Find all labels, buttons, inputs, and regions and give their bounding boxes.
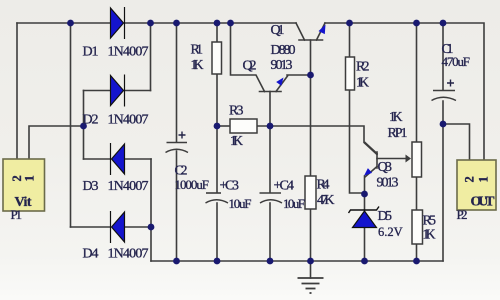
svg-text:1N4007: 1N4007: [108, 45, 149, 60]
svg-text:+C4: +C4: [274, 179, 295, 194]
svg-text:1: 1: [23, 175, 37, 181]
svg-text:D5: D5: [378, 209, 393, 224]
svg-text:RP1: RP1: [388, 126, 408, 141]
svg-text:D3: D3: [83, 179, 99, 194]
svg-text:OUT: OUT: [471, 195, 496, 210]
svg-text:1K: 1K: [356, 75, 369, 90]
svg-text:2: 2: [463, 176, 477, 182]
svg-text:Q3: Q3: [378, 160, 393, 175]
svg-text:P1: P1: [11, 207, 23, 222]
svg-text:1000uF: 1000uF: [175, 177, 210, 192]
svg-text:9013: 9013: [377, 176, 399, 191]
svg-text:R2: R2: [356, 60, 370, 75]
svg-text:9013: 9013: [271, 58, 293, 73]
svg-text:1K: 1K: [230, 133, 243, 148]
svg-text:R4: R4: [317, 178, 330, 193]
svg-text:D4: D4: [83, 247, 99, 262]
svg-text:Q2: Q2: [243, 59, 257, 74]
svg-text:470uF: 470uF: [442, 54, 471, 69]
svg-text:D2: D2: [83, 113, 99, 128]
svg-text:10uF: 10uF: [229, 196, 252, 211]
svg-text:R3: R3: [229, 104, 244, 119]
svg-text:D880: D880: [271, 43, 296, 58]
svg-text:P2: P2: [457, 207, 468, 222]
svg-text:1K: 1K: [389, 109, 403, 124]
svg-text:Q1: Q1: [271, 23, 285, 38]
svg-text:D1: D1: [83, 45, 99, 60]
svg-text:1K: 1K: [423, 227, 436, 242]
svg-text:1K: 1K: [191, 57, 204, 72]
svg-text:10uF: 10uF: [283, 196, 305, 211]
svg-text:+C3: +C3: [220, 179, 240, 194]
svg-text:1: 1: [477, 176, 491, 182]
svg-text:1N4007: 1N4007: [108, 113, 149, 128]
svg-text:1N4007: 1N4007: [108, 179, 149, 194]
svg-text:6.2V: 6.2V: [378, 225, 403, 239]
svg-text:R1: R1: [191, 43, 204, 58]
svg-text:47K: 47K: [317, 193, 335, 208]
svg-text:1N4007: 1N4007: [108, 247, 149, 262]
